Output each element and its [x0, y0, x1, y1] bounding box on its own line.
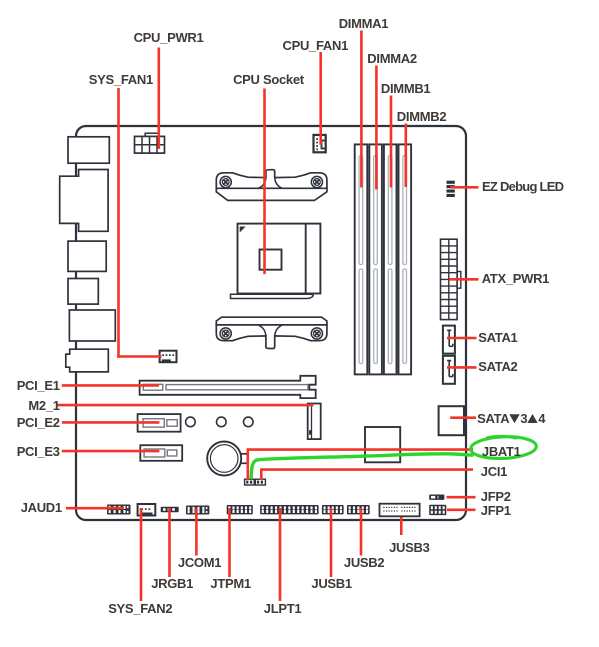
mounting hole 3 [244, 417, 254, 427]
label JUSB2 [344, 556, 384, 569]
CPU_FAN1 line [319, 52, 322, 145]
EZ Debug LED [447, 181, 455, 184]
socket pin1 triangle [240, 227, 246, 233]
SATA1 connector [443, 326, 455, 354]
label SATA1 [478, 331, 517, 344]
DIMM slot DIMMA1 [355, 144, 368, 374]
label PCI_E1 [17, 379, 60, 392]
CPU socket inner pad [260, 250, 282, 270]
label JFP1 [481, 504, 511, 517]
SYS_FAN1 connector [160, 351, 177, 363]
bracket screw bottom-right [311, 328, 322, 339]
label JLPT1 [264, 602, 302, 615]
label DIMMA1 [339, 17, 388, 30]
SATA1 line [447, 337, 477, 340]
CPU socket [238, 224, 321, 294]
I/O port 2 [60, 170, 108, 232]
label PCI_E2 [17, 416, 60, 429]
I/O port 5 [69, 310, 115, 341]
JFP1 header [429, 505, 446, 515]
JUSB1 line [330, 508, 333, 577]
bracket tab flares bottom [259, 325, 283, 336]
M2_1 slot [308, 404, 321, 440]
label DIMMA2 [367, 52, 416, 65]
JCI1 jumper [255, 479, 265, 485]
label JCI1 [481, 465, 507, 478]
EZ Debug LED line [451, 186, 479, 189]
I/O port 1 [68, 137, 109, 163]
JUSB2 header [347, 505, 370, 514]
ATX_PWR1 connector [457, 272, 461, 289]
socket lever bar [231, 294, 314, 298]
JUSB3 connector [380, 504, 420, 517]
battery [240, 454, 247, 464]
I/O port 6 [66, 349, 109, 372]
JRGB1 header [161, 507, 179, 512]
PCI_E2 line [62, 421, 160, 424]
label SYS_FAN1 [89, 73, 153, 86]
label PCI_E3 [17, 445, 60, 458]
ATX_PWR1 line [449, 278, 479, 281]
SATA2 connector [443, 356, 455, 384]
green ellipse overlap stroke [487, 436, 516, 438]
label JAUD1 [21, 501, 62, 514]
label JRGB1 [151, 577, 193, 590]
DIMMB2 line [404, 124, 407, 188]
bracket screw top-left [220, 176, 231, 187]
label DIMMB1 [381, 82, 430, 95]
JAUD1 line [66, 507, 124, 510]
JBAT1 jumper [245, 479, 255, 485]
DIMMA1 line [360, 31, 363, 188]
JBAT1 line v [247, 448, 250, 480]
CPU retention bracket top [216, 170, 327, 189]
label JUSB3 [389, 541, 429, 554]
CPU_PWR1 line [158, 48, 161, 149]
label DIMMB2 [397, 110, 446, 123]
SATA34 line [450, 416, 476, 419]
JBAT1 line h [248, 448, 473, 451]
SATA2 line [447, 366, 477, 369]
label ATX_PWR1 [482, 272, 549, 285]
JLPT1 header [260, 505, 319, 514]
JCI1 line h [261, 468, 473, 471]
mounting hole 1 [186, 417, 196, 427]
JCOM1 header [186, 506, 209, 515]
label JFP2 [481, 490, 511, 503]
label JTPM1 [210, 577, 250, 590]
CPU Socket line [263, 89, 266, 275]
bracket screw top-right [311, 176, 322, 187]
SYS_FAN1 line v [117, 88, 120, 358]
JFP1 line [447, 508, 476, 511]
DIMMA2 line [375, 66, 378, 190]
CPU retention bracket bottom [216, 317, 327, 325]
label JUSB1 [311, 577, 351, 590]
label JBAT1 [482, 445, 521, 458]
green highlight line [251, 454, 472, 478]
JCOM1 line [195, 508, 198, 556]
label SATA2 [478, 360, 517, 373]
PCI_E3 slot [140, 445, 182, 461]
I/O port 4 [68, 279, 98, 305]
DIMM slot DIMMA2 [369, 144, 382, 374]
DIMM slot DIMMB1 [384, 144, 397, 374]
JUSB3 line [400, 517, 403, 535]
mounting hole 2 [217, 417, 227, 427]
SYS_FAN1 line h [117, 355, 161, 358]
label CPU_PWR1 [134, 31, 204, 44]
JCI1 line v [260, 468, 263, 480]
label M2_1 [28, 399, 59, 412]
DIMM slot DIMMB2 [399, 144, 412, 374]
DIMMB1 line [390, 96, 393, 188]
JUSB2 line [360, 508, 363, 556]
label SYS_FAN2 [108, 602, 172, 615]
PCI_E2 slot [138, 414, 181, 432]
label EZ Debug LED [482, 180, 563, 193]
JTPM1 header [227, 505, 253, 514]
SYS_FAN2 line [140, 508, 143, 601]
I/O port 3 [68, 241, 106, 271]
CPU_FAN1 connector [314, 135, 326, 152]
SATA3 SATA4 connector [439, 406, 464, 435]
label CPU Socket [233, 73, 304, 86]
PCI_E3 line [62, 450, 160, 453]
JFP2 line [447, 496, 476, 499]
M2_1 line [56, 404, 314, 407]
JLPT1 line [279, 508, 282, 601]
label JCOM1 [178, 556, 221, 569]
JAUD1 header [107, 505, 131, 515]
label CPU_FAN1 [283, 39, 349, 52]
PCI_E1 line [62, 384, 159, 387]
JTPM1 line [228, 508, 231, 577]
CPU_PWR1 connector [145, 133, 158, 137]
label SATA 3 4 [477, 412, 545, 425]
chipset [365, 427, 400, 462]
JUSB1 header [322, 505, 344, 514]
motherboard outline [76, 126, 466, 520]
bracket tab flares top [259, 177, 283, 188]
SYS_FAN2 connector [138, 504, 156, 516]
JFP2 header [429, 495, 444, 500]
JRGB1 line [168, 508, 171, 577]
green ellipse around JBAT1 [470, 435, 536, 459]
bracket screw bottom-left [220, 328, 231, 339]
PCI_E1 slot [140, 376, 316, 398]
